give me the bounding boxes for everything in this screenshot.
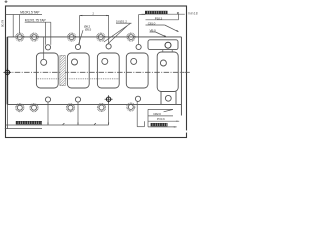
svg-text:C82.0: C82.0	[153, 112, 161, 116]
svg-text:P=0.3: P=0.3	[157, 117, 165, 121]
svg-text:VB.0: VB.0	[150, 29, 157, 33]
svg-text:M10X1.5 TAP: M10X1.5 TAP	[20, 11, 40, 15]
svg-text:C81.0: C81.0	[148, 21, 156, 25]
svg-text:50.79: 50.79	[1, 20, 5, 27]
svg-text:P10.3: P10.3	[155, 16, 163, 20]
svg-text:Ø5.5: Ø5.5	[85, 27, 92, 31]
svg-text:min18: min18	[188, 12, 198, 16]
svg-text:M12X1.75 TAP: M12X1.75 TAP	[25, 19, 47, 23]
svg-text:5XØ2.2: 5XØ2.2	[116, 20, 127, 24]
